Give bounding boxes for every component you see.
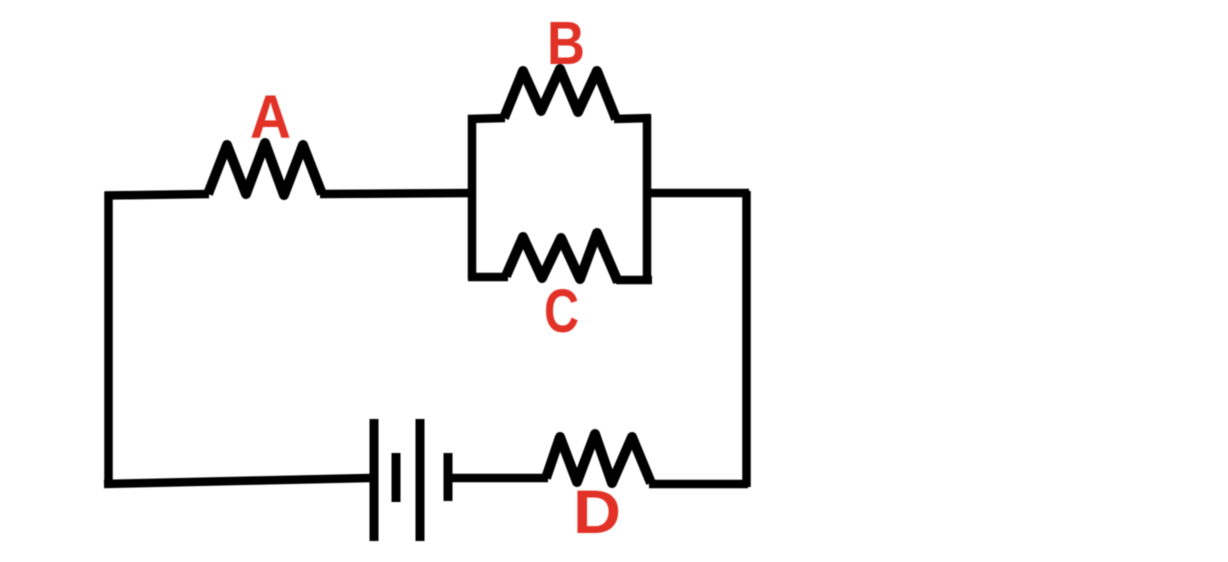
wire parallel-box right vertical [643, 115, 652, 282]
wire bottom-right horizontal [649, 480, 748, 489]
resistor A [208, 143, 322, 195]
resistor B [504, 69, 616, 119]
battery V1 long plate left [370, 419, 379, 541]
wire bottom-left horizontal [104, 478, 370, 484]
wire parallel-box left vertical [468, 115, 477, 279]
battery V1 short plate inner-left [392, 453, 401, 502]
wire box bottom-right shoulder [616, 276, 652, 285]
battery V1 long plate inner-right [416, 419, 425, 541]
wire box bottom-left shoulder [468, 273, 508, 282]
wire top-left horizontal [105, 194, 210, 196]
battery V1 short plate right [444, 453, 453, 501]
resistor C [506, 233, 618, 282]
svg-text:B: B [547, 9, 585, 77]
svg-text:D: D [573, 478, 621, 546]
resistor D [546, 434, 651, 483]
wire box top-right shoulder [614, 118, 651, 119]
wire right vertical [742, 191, 751, 487]
wire middle horizontal A-to-box [320, 193, 474, 194]
svg-text:A: A [250, 83, 291, 151]
wire right horizontal box-to-corner [648, 189, 749, 198]
wire box top-left shoulder [468, 118, 505, 119]
svg-text:C: C [544, 277, 579, 345]
wire left vertical [104, 192, 113, 482]
wire battery-to-D horizontal [449, 474, 548, 483]
